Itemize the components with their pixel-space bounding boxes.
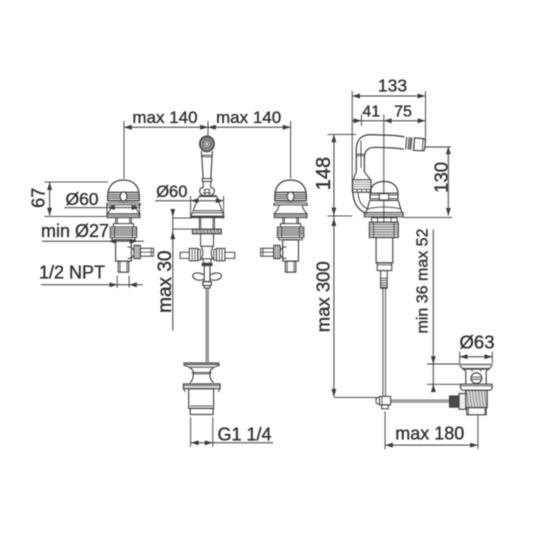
svg-text:75: 75 [394,104,412,121]
svg-text:max 300: max 300 [313,261,334,332]
svg-text:min Ø27: min Ø27 [41,221,109,241]
svg-text:min 36 max 52: min 36 max 52 [415,228,432,333]
svg-text:Ø63: Ø63 [460,331,495,352]
svg-text:148: 148 [313,157,335,190]
svg-text:Ø60: Ø60 [156,183,187,201]
svg-text:41: 41 [362,104,380,121]
svg-text:max 140: max 140 [132,108,197,127]
svg-text:max 30: max 30 [155,251,176,313]
svg-text:133: 133 [378,76,407,96]
svg-text:max 180: max 180 [395,424,464,444]
svg-text:Ø60: Ø60 [65,189,98,209]
svg-text:max 140: max 140 [216,108,281,127]
svg-text:G1 1/4: G1 1/4 [217,424,271,444]
svg-text:1/2 NPT: 1/2 NPT [39,263,105,283]
svg-text:67: 67 [29,188,49,208]
svg-text:130: 130 [430,162,451,193]
